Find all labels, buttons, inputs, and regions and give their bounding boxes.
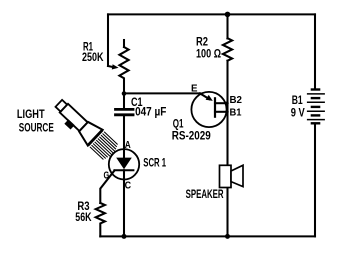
svg-text:SCR 1: SCR 1 xyxy=(143,156,166,170)
wire gate diagonal xyxy=(100,171,114,203)
svg-text:G: G xyxy=(104,169,110,181)
wire cathode down xyxy=(123,170,125,236)
svg-text:56K: 56K xyxy=(75,210,92,224)
light rays xyxy=(90,132,120,162)
svg-text:B2: B2 xyxy=(230,94,243,106)
node B1 junction xyxy=(225,110,228,113)
wire top rail xyxy=(108,13,315,15)
svg-text:100 Ω: 100 Ω xyxy=(196,47,221,61)
transistor Q1 body circle xyxy=(191,92,226,127)
wire right rail top xyxy=(314,14,316,89)
light source flashlight xyxy=(51,95,102,145)
svg-text:A: A xyxy=(125,139,131,151)
svg-text:E: E xyxy=(191,83,198,95)
resistor R2 100 ohm (zigzag) xyxy=(223,38,232,61)
svg-text:LIGHT: LIGHT xyxy=(17,107,45,121)
resistor R1 250K (zigzag) xyxy=(119,47,128,94)
battery B1 cells xyxy=(307,90,325,124)
capacitor C1 .047uF xyxy=(116,108,134,111)
node junction top rail / R2 xyxy=(225,12,231,18)
wire right rail bottom xyxy=(314,124,316,237)
SCR1 cathode bar xyxy=(114,169,133,171)
speaker xyxy=(220,165,244,187)
svg-text:9 V: 9 V xyxy=(291,106,305,120)
wire middle column xyxy=(226,61,228,166)
node junction speaker/bottom rail xyxy=(225,234,230,239)
transistor Q1 base bar xyxy=(214,98,216,116)
wire bottom rail xyxy=(100,235,315,237)
node junction cathode/bottom rail xyxy=(122,234,127,239)
svg-text:RS-2029: RS-2029 xyxy=(172,129,211,143)
svg-text:250K: 250K xyxy=(82,50,104,64)
node junction R1/C1/E xyxy=(122,91,127,96)
wire C1 top lead xyxy=(123,94,125,108)
svg-text:.047 µF: .047 µF xyxy=(132,104,166,118)
R1 wiper arrowhead xyxy=(112,64,119,69)
wire B1 lead xyxy=(215,111,228,113)
svg-text:SOURCE: SOURCE xyxy=(19,121,54,135)
wire B2 lead xyxy=(215,102,228,104)
svg-text:C: C xyxy=(125,180,132,192)
node B2 junction xyxy=(225,102,228,105)
resistor R3 56K (zigzag) xyxy=(96,203,105,236)
SCR1 body circle xyxy=(109,149,139,179)
svg-text:SPEAKER: SPEAKER xyxy=(186,187,224,201)
emitter arrowhead Q1 xyxy=(206,95,213,101)
wire emitter lead xyxy=(124,92,200,94)
wire emitter diagonal into Q1 xyxy=(200,93,210,99)
wire middle drop from top rail xyxy=(226,14,228,38)
SCR1 triangle xyxy=(116,158,132,170)
wire R1 wiper arrow xyxy=(108,66,114,67)
svg-text:B1: B1 xyxy=(230,106,242,118)
wire C1 to SCR anode xyxy=(123,116,125,158)
wire left drop to R1 wiper xyxy=(107,14,109,66)
wire speaker to bottom rail xyxy=(226,188,228,237)
wire R1 top stub xyxy=(123,40,125,47)
